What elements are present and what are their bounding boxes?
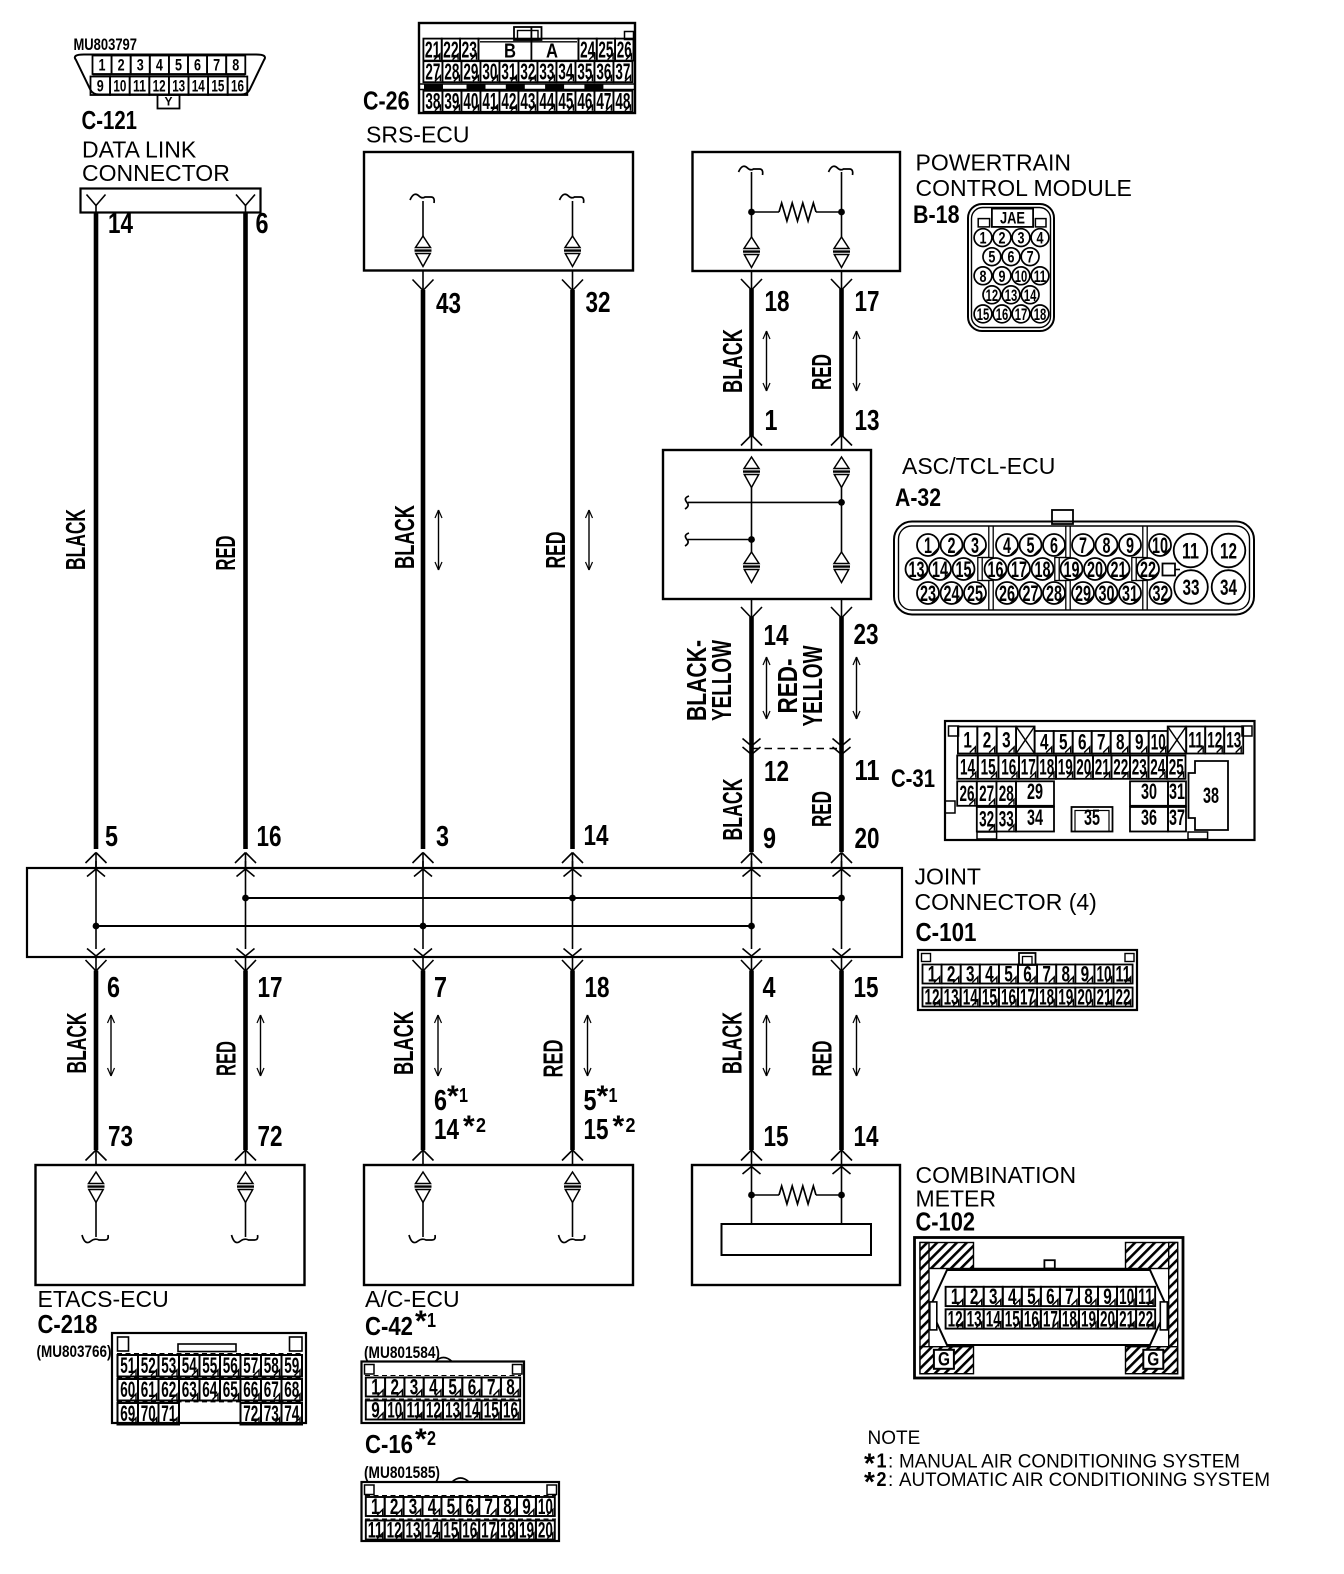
svg-text:A-32: A-32	[895, 484, 941, 512]
svg-text:31: 31	[501, 58, 516, 84]
svg-text:23: 23	[920, 581, 936, 606]
pin label 12 (C-31)	[764, 756, 789, 788]
svg-text:2: 2	[877, 1469, 887, 1491]
svg-text:15: 15	[764, 1121, 789, 1153]
svg-text:2: 2	[118, 55, 125, 74]
svg-text:15: 15	[484, 1397, 499, 1422]
svg-text:12: 12	[153, 76, 166, 95]
svg-text:10: 10	[538, 1494, 553, 1519]
pin label 32 (SRS-ECU)	[586, 287, 611, 319]
connector C-102 face drawing (22-pin with ground tabs)	[915, 1238, 1184, 1379]
svg-text:48: 48	[615, 88, 630, 114]
arrow on RED-YELLOW wire	[853, 657, 860, 719]
svg-text:BLACK: BLACK	[717, 329, 748, 393]
svg-text:MU803797: MU803797	[74, 35, 138, 54]
svg-text:7: 7	[434, 972, 447, 1004]
connector C-218 face drawing	[112, 1333, 306, 1426]
svg-text:12: 12	[426, 1397, 441, 1422]
svg-text:52: 52	[141, 1353, 156, 1378]
svg-text:29: 29	[1075, 581, 1091, 606]
svg-text:RED: RED	[806, 791, 837, 827]
arrow on BLACK SRS wire	[435, 510, 442, 570]
svg-text:65: 65	[223, 1377, 238, 1402]
svg-text:CONNECTOR (4): CONNECTOR (4)	[915, 889, 1097, 915]
svg-text:69: 69	[120, 1401, 135, 1426]
svg-text:15: 15	[854, 972, 879, 1004]
svg-text:RED: RED	[807, 1041, 838, 1077]
svg-text:8: 8	[503, 1494, 512, 1519]
svg-text:35: 35	[1084, 805, 1100, 830]
svg-text:43: 43	[520, 88, 535, 114]
svg-text:8: 8	[232, 55, 239, 74]
svg-text:16: 16	[996, 305, 1009, 324]
connector C-121 part number MU803797	[74, 35, 138, 54]
svg-text:21: 21	[1095, 755, 1110, 780]
svg-text:24: 24	[1150, 755, 1165, 780]
pin label 6 (joint bottom)	[107, 972, 120, 1004]
svg-text:3: 3	[1018, 229, 1025, 248]
svg-text:62: 62	[161, 1377, 176, 1402]
svg-text:13: 13	[909, 557, 925, 582]
wire RED from joint connector pin 17 downward at x=245.5	[235, 957, 256, 1166]
svg-text:19: 19	[1058, 984, 1073, 1009]
svg-text:51: 51	[120, 1353, 135, 1378]
svg-text:12: 12	[387, 1517, 402, 1542]
svg-text:5: 5	[447, 1494, 456, 1519]
svg-text:25: 25	[1169, 755, 1184, 780]
note *1 manual air conditioning	[864, 1448, 1240, 1479]
svg-text:71: 71	[161, 1401, 176, 1426]
svg-text:C-101: C-101	[916, 917, 977, 947]
label CONTROL MODULE	[916, 175, 1132, 201]
component box ASC/TCL-ECU with internal pins	[663, 450, 871, 599]
svg-text:A/C-ECU: A/C-ECU	[365, 1286, 460, 1312]
svg-text:RED: RED	[540, 532, 571, 569]
svg-text:6: 6	[107, 972, 120, 1004]
svg-text:10: 10	[1151, 730, 1166, 755]
wire BLACK from PCM pin 18 to ASC/TCL-ECU pin 1	[741, 271, 762, 450]
svg-text:7: 7	[1079, 533, 1087, 558]
wire RED from PCM pin 17 to ASC/TCL-ECU pin 13	[831, 271, 852, 450]
svg-text:5: 5	[584, 1085, 597, 1117]
svg-text:1: 1	[99, 55, 106, 74]
wire label RED-YELLOW	[772, 645, 828, 726]
svg-text:BLACK: BLACK	[388, 1011, 419, 1075]
pin label 23 (ASC bottom)	[854, 619, 879, 651]
pin label 17 (joint bottom)	[258, 972, 283, 1004]
svg-text:53: 53	[161, 1353, 176, 1378]
svg-text:15: 15	[211, 76, 224, 95]
svg-text:10: 10	[1096, 961, 1111, 986]
svg-text:*: *	[447, 1080, 459, 1113]
svg-text:Y: Y	[164, 95, 172, 109]
svg-text:(MU803766): (MU803766)	[37, 1342, 112, 1361]
svg-text:20: 20	[1087, 557, 1103, 582]
svg-text:13: 13	[1005, 286, 1018, 305]
svg-text:12: 12	[948, 1306, 963, 1331]
svg-text:10: 10	[113, 76, 126, 95]
svg-text:31: 31	[1169, 779, 1185, 804]
svg-text:10: 10	[1152, 533, 1168, 558]
svg-text:*: *	[463, 1110, 475, 1143]
svg-text:*: *	[415, 1305, 427, 1338]
connector C-31 face drawing (38-pin)	[945, 721, 1255, 840]
svg-text:21: 21	[1111, 557, 1127, 582]
wire BLACK from joint connector pin 7 downward at x=423	[413, 957, 434, 1166]
svg-text:15: 15	[1005, 1306, 1020, 1331]
svg-text:21: 21	[1119, 1306, 1134, 1331]
svg-text:4: 4	[429, 1374, 438, 1399]
wire label RED (SRS wire)	[540, 532, 571, 569]
svg-text:22: 22	[1113, 755, 1128, 780]
svg-text:38: 38	[1203, 783, 1219, 808]
svg-text:BLACK: BLACK	[61, 1013, 92, 1074]
svg-text:6: 6	[1008, 248, 1015, 267]
arrow on RED PCM wire	[853, 331, 860, 391]
svg-text:36: 36	[1141, 805, 1157, 830]
wire label BLACK (PCM wire)	[717, 329, 748, 393]
svg-text:11: 11	[1116, 961, 1131, 986]
label B-18	[913, 201, 960, 229]
svg-text:72: 72	[258, 1121, 283, 1153]
note *2 automatic air conditioning	[864, 1466, 1270, 1497]
wire label BLACK (SRS wire)	[389, 505, 420, 569]
svg-text:1: 1	[928, 961, 937, 986]
svg-text:7: 7	[484, 1494, 493, 1519]
svg-text:16: 16	[462, 1517, 477, 1542]
svg-text:14: 14	[932, 557, 948, 582]
svg-text:14: 14	[584, 820, 609, 852]
svg-text:3: 3	[436, 821, 449, 853]
svg-text:38: 38	[425, 88, 440, 114]
svg-text:2: 2	[626, 1115, 636, 1137]
arrow on lower BLACK wire x=423	[435, 1015, 442, 1076]
svg-text:74: 74	[284, 1401, 299, 1426]
svg-text:9: 9	[999, 267, 1006, 286]
pin label 9 (joint connector)	[763, 823, 776, 855]
label COMBINATION	[916, 1162, 1077, 1188]
wire label RED (lower run x=245.5)	[211, 1041, 242, 1076]
svg-text:6: 6	[434, 1085, 447, 1117]
svg-text:5: 5	[988, 248, 995, 267]
svg-text:14: 14	[1024, 286, 1037, 305]
svg-text:10: 10	[387, 1397, 402, 1422]
label C-102	[916, 1207, 976, 1237]
svg-text:15: 15	[956, 557, 972, 582]
svg-text:22: 22	[1138, 1306, 1153, 1331]
svg-text:*: *	[597, 1080, 609, 1113]
svg-text:11: 11	[855, 755, 880, 787]
svg-text:2: 2	[983, 727, 992, 752]
svg-text:11: 11	[1182, 539, 1199, 564]
svg-text:24: 24	[944, 581, 960, 606]
svg-text:16: 16	[257, 821, 282, 853]
label A-32	[895, 484, 941, 512]
svg-text:*: *	[613, 1110, 625, 1143]
wire label BLACK-YELLOW	[681, 640, 737, 721]
inline connector C-31 dashed link	[752, 748, 842, 750]
wire RED from joint connector pin 18 downward at x=572.5	[562, 957, 583, 1166]
svg-text:1: 1	[609, 1085, 618, 1107]
wire BLACK from joint connector pin 4 downward at x=751.5	[741, 957, 762, 1166]
svg-text:BLACK: BLACK	[717, 779, 748, 841]
connector C-26 face drawing (48-pin)	[419, 23, 635, 114]
label C-26	[363, 86, 410, 116]
svg-text:BLACK: BLACK	[717, 1012, 748, 1074]
wire label BLACK (lower run x=751.5)	[717, 1012, 748, 1074]
joint connector bus wire (lower, BLACK side)	[93, 923, 755, 930]
label SRS-ECU	[366, 122, 470, 148]
svg-text:17: 17	[1020, 984, 1035, 1009]
component box JOINT CONNECTOR (4) C-101	[27, 861, 902, 957]
svg-text:*: *	[415, 1423, 427, 1456]
label JOINT	[915, 864, 981, 890]
svg-text:44: 44	[539, 88, 554, 114]
svg-text:4: 4	[1037, 229, 1044, 248]
pin label 1 (ASC/TCL-ECU)	[765, 405, 778, 437]
wire label RED (DLC wire)	[210, 536, 241, 571]
label CONNECTOR (4)	[915, 889, 1097, 915]
svg-text:4: 4	[156, 55, 163, 74]
svg-text:13: 13	[172, 76, 185, 95]
svg-text:3: 3	[971, 533, 979, 558]
svg-text:2: 2	[999, 229, 1006, 248]
label (MU801585)	[364, 1463, 440, 1482]
pin label 6 (C-121)	[256, 208, 269, 240]
component box POWERTRAIN CONTROL MODULE with terminating resistor	[693, 152, 901, 271]
svg-text:ASC/TCL-ECU: ASC/TCL-ECU	[902, 453, 1055, 479]
wire label BLACK (DLC wire)	[60, 509, 91, 570]
svg-text:1: 1	[963, 727, 972, 752]
component box COMBINATION METER with terminating resistor	[692, 1165, 900, 1285]
svg-text:73: 73	[108, 1121, 133, 1153]
svg-text:13: 13	[406, 1517, 421, 1542]
svg-text:BLACK: BLACK	[389, 505, 420, 569]
svg-text:G: G	[938, 1350, 950, 1371]
svg-text:29: 29	[1027, 779, 1043, 804]
pin label 14 (ASC bottom)	[764, 620, 789, 652]
pin label 4 (joint bottom)	[763, 972, 776, 1004]
svg-text:14: 14	[854, 1121, 879, 1153]
svg-text:37: 37	[615, 58, 630, 84]
svg-text:G: G	[1147, 1350, 1159, 1371]
svg-text:3: 3	[410, 1374, 419, 1399]
pin label 11 (C-31)	[855, 755, 880, 787]
svg-text:17: 17	[481, 1517, 496, 1542]
svg-text:5: 5	[105, 821, 118, 853]
svg-text:18: 18	[1062, 1306, 1077, 1331]
svg-text:C-102: C-102	[916, 1207, 976, 1237]
svg-text:41: 41	[482, 88, 497, 114]
svg-text:66: 66	[243, 1377, 258, 1402]
svg-text:16: 16	[503, 1397, 518, 1422]
svg-text::: :	[888, 1470, 893, 1491]
svg-text:BLACK: BLACK	[60, 509, 91, 570]
svg-text:15: 15	[977, 305, 990, 324]
arrow on lower RED wire x=572.5	[584, 1015, 591, 1076]
svg-text:34: 34	[558, 58, 573, 84]
svg-text:34: 34	[1220, 575, 1238, 600]
svg-text:18: 18	[1034, 305, 1047, 324]
svg-text:28: 28	[444, 58, 459, 84]
label ASC/TCL-ECU	[902, 453, 1055, 479]
svg-text:42: 42	[501, 88, 516, 114]
label (MU803766)	[37, 1342, 112, 1361]
label CONNECTOR	[82, 160, 230, 186]
svg-text:56: 56	[223, 1353, 238, 1378]
svg-text:7: 7	[213, 55, 220, 74]
svg-text:14: 14	[108, 208, 133, 240]
svg-text:*: *	[864, 1466, 875, 1497]
svg-text:14: 14	[192, 76, 205, 95]
svg-text:3: 3	[966, 961, 975, 986]
pin label 14 (C-121)	[108, 208, 133, 240]
svg-text:9: 9	[97, 76, 104, 95]
svg-text:18: 18	[500, 1517, 515, 1542]
label C-121	[82, 105, 138, 135]
svg-text:14: 14	[764, 620, 789, 652]
svg-text:17: 17	[1021, 755, 1036, 780]
svg-text:14: 14	[424, 1517, 439, 1542]
svg-text:73: 73	[264, 1401, 279, 1426]
svg-text:32: 32	[1153, 581, 1169, 606]
svg-text:CONNECTOR: CONNECTOR	[82, 160, 230, 186]
svg-text:3: 3	[137, 55, 144, 74]
svg-text:58: 58	[264, 1353, 279, 1378]
svg-text:61: 61	[141, 1377, 156, 1402]
svg-text:7: 7	[487, 1374, 496, 1399]
svg-text:16: 16	[1001, 984, 1016, 1009]
svg-text:JAE: JAE	[1000, 209, 1025, 228]
svg-text:17: 17	[1015, 305, 1028, 324]
svg-text:12: 12	[986, 286, 999, 305]
svg-text:22: 22	[1116, 984, 1131, 1009]
wire label RED (C-31 to joint)	[806, 791, 837, 827]
svg-text:32: 32	[586, 287, 611, 319]
component box A/C-ECU with internal pins	[364, 1165, 633, 1285]
svg-text:14: 14	[963, 984, 978, 1009]
svg-text:3: 3	[409, 1494, 418, 1519]
svg-text:1: 1	[459, 1085, 468, 1107]
svg-text:11: 11	[133, 76, 146, 95]
svg-text:(MU801584): (MU801584)	[364, 1343, 440, 1362]
svg-text:5: 5	[448, 1374, 457, 1399]
svg-text:17: 17	[1043, 1306, 1058, 1331]
svg-text:10: 10	[1015, 267, 1028, 286]
label C-42*1	[365, 1305, 436, 1341]
label ETACS-ECU	[38, 1286, 169, 1312]
svg-text:30: 30	[1099, 581, 1115, 606]
svg-text:8: 8	[506, 1374, 515, 1399]
pin label 18 (joint bottom)	[585, 972, 610, 1004]
svg-text:13: 13	[855, 405, 880, 437]
arrow on lower BLACK wire x=751.5	[763, 1015, 770, 1076]
label A/C-ECU	[365, 1286, 460, 1312]
svg-text:20: 20	[538, 1517, 553, 1542]
pin label 20 (joint connector)	[855, 823, 880, 855]
wire label RED (lower run x=841.5)	[807, 1041, 838, 1077]
svg-text:20: 20	[855, 823, 880, 855]
svg-text:19: 19	[1081, 1306, 1096, 1331]
svg-text:4: 4	[763, 972, 776, 1004]
label C-16*2	[365, 1423, 436, 1459]
resistor (combination meter internal)	[779, 1186, 816, 1204]
svg-text:9: 9	[763, 823, 776, 855]
svg-text:5: 5	[1004, 961, 1013, 986]
svg-text:16: 16	[988, 557, 1004, 582]
svg-text:9: 9	[522, 1494, 531, 1519]
svg-text:7: 7	[1042, 961, 1051, 986]
wire RED-YELLOW from ASC pin 23 to C-31 pin 11	[831, 599, 852, 868]
svg-text:14: 14	[986, 1306, 1001, 1331]
svg-text:C-42: C-42	[365, 1311, 413, 1341]
svg-text:27: 27	[425, 58, 440, 84]
svg-text:11: 11	[407, 1397, 422, 1422]
svg-text:6: 6	[1050, 533, 1058, 558]
svg-text:6: 6	[1023, 961, 1032, 986]
svg-text:14: 14	[434, 1114, 459, 1146]
svg-text:4: 4	[985, 961, 994, 986]
svg-text:25: 25	[967, 581, 983, 606]
svg-text:60: 60	[120, 1377, 135, 1402]
label (MU801584)	[364, 1343, 440, 1362]
svg-text:11: 11	[1034, 267, 1047, 286]
svg-text:16: 16	[231, 76, 244, 95]
svg-text:8: 8	[1062, 961, 1071, 986]
svg-text:23: 23	[1132, 755, 1147, 780]
svg-text:RED: RED	[538, 1040, 569, 1078]
svg-text:2: 2	[391, 1374, 400, 1399]
svg-text:13: 13	[967, 1306, 982, 1331]
svg-text:4: 4	[1008, 1284, 1017, 1309]
wire label RED (PCM wire)	[806, 354, 837, 390]
wire RED from joint connector pin 15 downward at x=841.5	[831, 957, 852, 1166]
wire RED from C-121 pin 6 to joint connector pin 16	[235, 213, 256, 868]
svg-text:7: 7	[1027, 248, 1034, 267]
svg-text:28: 28	[1046, 581, 1062, 606]
svg-text:1: 1	[924, 533, 932, 558]
pin label 72 (bottom ECU)	[258, 1121, 283, 1153]
pin label 14 (joint connector)	[584, 820, 609, 852]
svg-text:1: 1	[371, 1374, 380, 1399]
connector C-121 face drawing (16-pin DLC)	[75, 55, 265, 109]
svg-text:19: 19	[519, 1517, 534, 1542]
label C-101	[916, 917, 977, 947]
wire label BLACK (lower run x=423)	[388, 1011, 419, 1075]
svg-text:SRS-ECU: SRS-ECU	[366, 122, 470, 148]
resistor (PCM internal, 120 ohm)	[779, 203, 816, 221]
component box DATA LINK CONNECTOR C-121 with pins 14 and 6	[81, 189, 261, 213]
svg-text:JOINT: JOINT	[915, 864, 981, 890]
svg-text:3: 3	[1002, 727, 1011, 752]
svg-text:5: 5	[175, 55, 182, 74]
svg-text:RED: RED	[210, 536, 241, 571]
svg-text:33: 33	[539, 58, 554, 84]
svg-text:30: 30	[1141, 779, 1157, 804]
arrow on lower RED wire x=841.5	[853, 1015, 860, 1076]
svg-text:C-31: C-31	[891, 765, 935, 793]
pin label 18 (PCM)	[765, 286, 790, 318]
svg-text:54: 54	[182, 1353, 197, 1378]
svg-text:2: 2	[390, 1494, 399, 1519]
svg-text:45: 45	[558, 88, 573, 114]
svg-text:C-218: C-218	[38, 1309, 98, 1339]
svg-text:12: 12	[925, 984, 940, 1009]
svg-text:27: 27	[1023, 581, 1039, 606]
svg-text:9: 9	[371, 1397, 380, 1422]
svg-text:1: 1	[371, 1494, 380, 1519]
svg-text:20: 20	[1100, 1306, 1115, 1331]
